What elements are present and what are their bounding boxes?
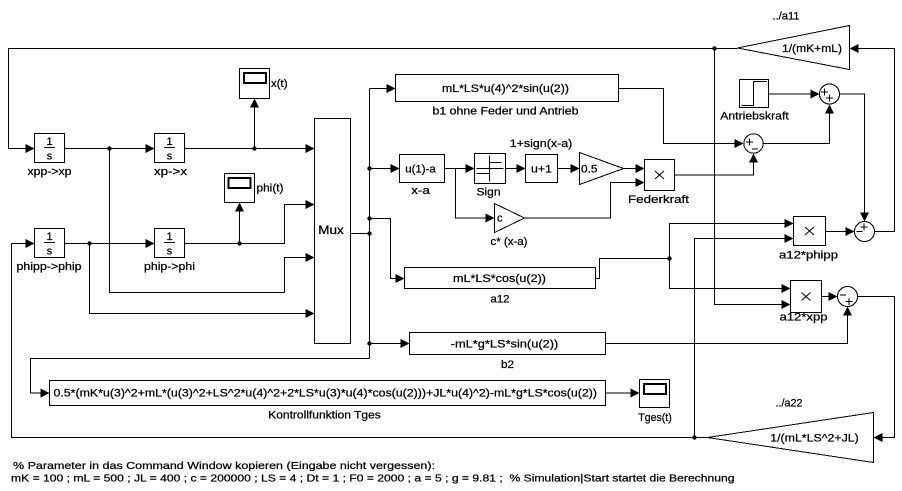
svg-text:mL*LS*cos(u(2)): mL*LS*cos(u(2)) bbox=[453, 273, 546, 285]
svg-text:phip->phi: phip->phi bbox=[144, 261, 195, 273]
node bus tap a12 bbox=[367, 216, 371, 220]
svg-text:xpp->xp: xpp->xp bbox=[28, 166, 72, 178]
node a12 branch junction bbox=[667, 256, 671, 260]
svg-text:1: 1 bbox=[46, 136, 52, 148]
scope x(t) bbox=[240, 69, 288, 99]
wire xp to Mux input 3 bbox=[110, 149, 315, 293]
wire bus to Kontrollfunktion block bbox=[31, 359, 370, 398]
svg-text:Federkraft: Federkraft bbox=[628, 194, 689, 206]
svg-text:Mux: Mux bbox=[318, 223, 344, 237]
wire u+1 output to gain 0.5 bbox=[558, 164, 580, 173]
wire gain c output to Federkraft product input 2 bbox=[525, 178, 645, 218]
node phi junction bbox=[237, 241, 241, 245]
integrator phipp->phip bbox=[17, 229, 82, 274]
wire Kontrollfunktion output to scope Tges bbox=[606, 389, 640, 398]
svg-text:Antriebskraft: Antriebskraft bbox=[720, 111, 789, 123]
wire x to Mux input 1 bbox=[185, 144, 315, 153]
svg-text:u(1)-a: u(1)-a bbox=[405, 164, 436, 176]
fcn block b2 bbox=[410, 333, 606, 372]
wire x up to scope x(t) bbox=[250, 99, 259, 149]
footer comment line 1 bbox=[13, 460, 435, 472]
sign block bbox=[475, 154, 506, 199]
node phipp tap junction bbox=[692, 435, 696, 439]
wire a12 up to a12*phipp input 1 bbox=[670, 219, 794, 259]
svg-text:1/(mK+mL): 1/(mK+mL) bbox=[782, 43, 842, 55]
fcn block u+1 bbox=[510, 138, 573, 183]
sum S2 (+ -) bbox=[744, 134, 763, 153]
svg-text:1/(mL*LS^2+JL): 1/(mL*LS^2+JL) bbox=[770, 433, 859, 445]
wire bus to a12 block bbox=[370, 219, 405, 284]
fcn block x-a bbox=[400, 155, 445, 198]
wire b2 output up to sum S4 bbox=[606, 307, 853, 344]
wire xpp->xp output to xp->x bbox=[65, 144, 155, 153]
gain a11 bbox=[738, 11, 850, 70]
svg-text:0.5: 0.5 bbox=[581, 164, 598, 176]
gain a22 bbox=[708, 398, 874, 463]
node phip junction bbox=[87, 241, 91, 245]
svg-text:-mL*g*LS*sin(u(2)): -mL*g*LS*sin(u(2)) bbox=[451, 339, 559, 351]
wire phipp->phip output to phip->phi bbox=[65, 239, 155, 248]
svg-text:b1 ohne Feder und Antrieb: b1 ohne Feder und Antrieb bbox=[433, 106, 579, 118]
wire sum S4 output down to gain a22 bbox=[858, 297, 895, 443]
svg-text:phipp->phip: phipp->phip bbox=[17, 261, 82, 273]
fcn block Kontrollfunktion bbox=[50, 381, 606, 422]
wire a12 output branch bbox=[596, 259, 670, 279]
mux block bbox=[315, 119, 351, 344]
wire x-a branch down to gain c bbox=[456, 169, 495, 223]
integrator xp->x bbox=[154, 134, 188, 179]
wire a22 output to phipp->phip (bottom feedback, y=438) bbox=[12, 239, 708, 438]
svg-text:1: 1 bbox=[166, 231, 172, 243]
wire bus to b2 block bbox=[370, 339, 410, 348]
svg-text:% Parameter in das Command Win: % Parameter in das Command Window kopier… bbox=[13, 460, 435, 472]
integrator xpp->xp bbox=[28, 134, 72, 179]
wire b1 output to sum S2 bbox=[619, 89, 744, 149]
svg-text:x(t): x(t) bbox=[271, 78, 288, 90]
product Federkraft bbox=[628, 160, 689, 207]
wire phi to Mux input 2 bbox=[185, 200, 315, 244]
svg-text:1: 1 bbox=[166, 136, 172, 148]
wire bus to u(1)-a block bbox=[370, 164, 400, 173]
fcn block b1 bbox=[396, 75, 619, 118]
sum S4 (- +) bbox=[838, 287, 858, 307]
svg-text:u+1: u+1 bbox=[531, 164, 552, 176]
node bus tap u(1)-a bbox=[367, 166, 371, 170]
wire a11 output to xpp->xp (top feedback, y=48) bbox=[9, 49, 738, 154]
wire xpp down to a12*xpp input 2 bbox=[715, 49, 791, 310]
product a12*phipp bbox=[779, 217, 838, 262]
scope phi(t) bbox=[225, 174, 284, 203]
svg-text:1+sign(x-a): 1+sign(x-a) bbox=[510, 138, 573, 150]
fcn block a12 bbox=[405, 268, 596, 306]
wire sum S2 output up to sum S1 bbox=[764, 105, 835, 144]
wire u(1)-a output to Sign bbox=[445, 164, 475, 173]
svg-text:../a11: ../a11 bbox=[773, 11, 800, 23]
product a12*xpp bbox=[780, 281, 828, 324]
wire phipp up to a12*phipp input 2 bbox=[695, 234, 794, 438]
svg-text:s: s bbox=[47, 151, 53, 163]
svg-text:0.5*(mK*u(3)^2+mL*(u(3)^2+LS^2: 0.5*(mK*u(3)^2+mL*(u(3)^2+LS^2*u(4)^2+2*… bbox=[54, 388, 598, 400]
wire Sign output to u+1 bbox=[506, 164, 526, 173]
svg-text:c: c bbox=[497, 213, 503, 225]
svg-text:c* (x-a): c* (x-a) bbox=[491, 236, 528, 248]
step block Antriebskraft bbox=[720, 80, 789, 123]
svg-text:phi(t): phi(t) bbox=[257, 183, 284, 195]
gain c bbox=[491, 204, 528, 249]
node xpp tap junction bbox=[712, 46, 716, 50]
svg-text:mL*LS*u(4)^2*sin(u(2)): mL*LS*u(4)^2*sin(u(2)) bbox=[442, 83, 569, 95]
svg-text:Kontrollfunktion Tges: Kontrollfunktion Tges bbox=[268, 410, 381, 422]
node bus-mux junction bbox=[367, 231, 371, 235]
svg-text:mK = 100 ; mL = 500 ; JL = 400: mK = 100 ; mL = 500 ; JL = 400 ; c = 200… bbox=[11, 473, 735, 485]
gain 0.5 bbox=[580, 153, 624, 185]
svg-text:a12: a12 bbox=[491, 294, 510, 306]
svg-text:Tges(t): Tges(t) bbox=[638, 412, 672, 424]
svg-text:s: s bbox=[47, 246, 53, 258]
svg-text:s: s bbox=[167, 151, 173, 163]
node x junction bbox=[252, 146, 256, 150]
svg-text:../a22: ../a22 bbox=[776, 398, 803, 410]
sum S1 (+ +) bbox=[820, 84, 840, 104]
wire a12*xpp output to sum S4 bbox=[822, 292, 838, 301]
svg-text:s: s bbox=[167, 246, 173, 258]
wire a12 down to a12*xpp input 1 bbox=[670, 259, 791, 294]
wire phip to Mux input 4 bbox=[90, 244, 315, 319]
wire gain 0.5 output to Federkraft product bbox=[624, 164, 645, 173]
svg-text:1: 1 bbox=[46, 231, 52, 243]
wire Federkraft output up to sum S2 bbox=[675, 154, 759, 176]
wire sum S3 output up to gain a11 bbox=[850, 44, 895, 232]
svg-text:b2: b2 bbox=[501, 359, 514, 371]
svg-text:xp->x: xp->x bbox=[154, 166, 188, 178]
wire bus to b1 block bbox=[370, 84, 396, 93]
sum S3 (+ -) bbox=[855, 222, 875, 242]
wire bus vertical bbox=[369, 89, 371, 359]
svg-text:a12*xpp: a12*xpp bbox=[780, 312, 828, 324]
scope Tges bbox=[638, 380, 672, 425]
node bus tap b2 bbox=[367, 341, 371, 345]
wire a12*phipp output to sum S3 bbox=[826, 227, 855, 236]
integrator phip->phi bbox=[144, 229, 195, 274]
svg-text:a12*phipp: a12*phipp bbox=[779, 250, 838, 262]
svg-text:Sign: Sign bbox=[477, 187, 501, 199]
node xp junction bbox=[107, 146, 111, 150]
wire Antriebskraft output to sum S1 bbox=[769, 90, 820, 99]
wire Mux output to bus bbox=[351, 233, 370, 235]
svg-text:x-a: x-a bbox=[411, 185, 431, 197]
wire sum S1 output down to sum S3 bbox=[840, 94, 870, 222]
footer comment line 2 bbox=[11, 473, 735, 485]
wire phi up to scope phi(t) bbox=[235, 203, 244, 244]
